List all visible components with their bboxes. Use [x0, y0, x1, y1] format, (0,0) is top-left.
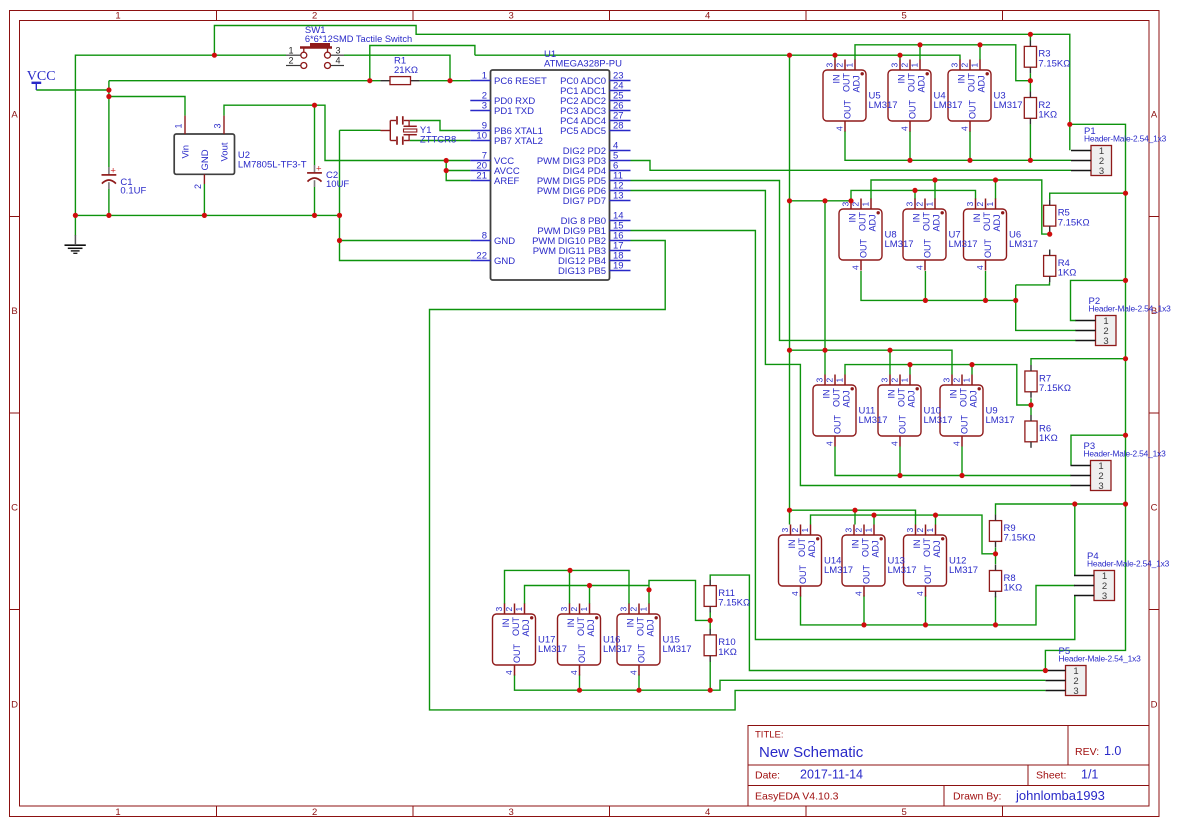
- regulator U4 (LM317): [888, 60, 963, 132]
- svg-text:OUT: OUT: [511, 617, 521, 637]
- svg-text:ADJ: ADJ: [842, 390, 852, 407]
- svg-text:2: 2: [835, 63, 845, 68]
- resistor R11: [704, 580, 750, 613]
- svg-text:OUT: OUT: [898, 415, 908, 435]
- svg-text:3: 3: [965, 202, 975, 207]
- svg-text:4: 4: [825, 441, 835, 446]
- svg-text:2017-11-14: 2017-11-14: [800, 768, 863, 782]
- svg-text:3: 3: [213, 123, 223, 128]
- wire group3 OUT rail to P3 pin2: [835, 447, 1071, 476]
- wire group4 IN rail: [790, 510, 916, 524]
- svg-text:1: 1: [115, 807, 120, 818]
- svg-text:OUT: OUT: [861, 538, 871, 558]
- svg-text:AREF: AREF: [494, 176, 520, 187]
- header P4: [1074, 551, 1170, 602]
- svg-text:LM317: LM317: [859, 415, 888, 426]
- svg-text:1: 1: [900, 378, 910, 383]
- resistor R4: [1044, 250, 1077, 283]
- svg-text:1KΩ: 1KΩ: [1039, 433, 1058, 444]
- svg-text:OUT: OUT: [797, 538, 807, 558]
- resistor R5: [1044, 199, 1090, 232]
- wire R4 bottom link: [1016, 282, 1050, 285]
- wire U6 pin1 tap: [995, 180, 997, 199]
- svg-text:Header-Male-2.54_1x3: Header-Male-2.54_1x3: [1059, 654, 1142, 664]
- wire R11 top to P5 pin1: [710, 575, 1045, 670]
- svg-text:1: 1: [910, 63, 920, 68]
- svg-text:LM317: LM317: [663, 644, 692, 655]
- svg-text:3: 3: [880, 378, 890, 383]
- wire U3 pin4 tap: [969, 131, 971, 160]
- svg-text:ADJ: ADJ: [807, 540, 817, 557]
- svg-text:1.0: 1.0: [1104, 744, 1121, 758]
- svg-text:22: 22: [476, 251, 487, 262]
- svg-text:D: D: [1151, 700, 1158, 711]
- regulator U6 (LM317): [964, 199, 1039, 271]
- regulator U3 (LM317): [948, 60, 1023, 132]
- wire group2 ADJ rail: [871, 180, 1050, 234]
- svg-text:2: 2: [960, 63, 970, 68]
- wire C1 bottom to ground rail: [108, 189, 110, 215]
- svg-text:OUT: OUT: [832, 388, 842, 408]
- svg-text:3: 3: [942, 378, 952, 383]
- header P3: [1071, 441, 1167, 492]
- regulator U16 (LM317): [558, 604, 633, 676]
- svg-text:IN: IN: [897, 75, 907, 84]
- svg-text:19: 19: [613, 261, 624, 272]
- wire U9 pin4 tap: [961, 447, 963, 476]
- wire U16 pin1 tap: [589, 586, 591, 605]
- svg-text:+: +: [110, 166, 116, 177]
- wire ADJ rail to R11-R10: [649, 580, 710, 620]
- wire SW1 pin1 to ground rail: [75, 55, 286, 215]
- svg-text:ADJ: ADJ: [852, 75, 862, 92]
- svg-text:LM317: LM317: [924, 415, 953, 426]
- svg-text:OUT: OUT: [636, 617, 646, 637]
- wire R8 bottom to OUT rail: [995, 596, 997, 625]
- svg-text:3: 3: [844, 528, 854, 533]
- svg-text:IN: IN: [848, 214, 858, 223]
- wire U1 pin12 to P3 pin3: [631, 191, 1072, 486]
- svg-text:OUT: OUT: [833, 415, 843, 435]
- svg-text:ADJ: ADJ: [871, 540, 881, 557]
- wire group2 IN feed: [790, 200, 852, 202]
- svg-text:+: +: [316, 164, 322, 175]
- wire U1 pin15 to P4 pin3: [631, 231, 1075, 640]
- svg-text:1KΩ: 1KΩ: [718, 647, 737, 658]
- wire U4 pin1 tap: [919, 45, 921, 60]
- svg-text:OUT: OUT: [923, 239, 933, 259]
- svg-text:21: 21: [476, 171, 487, 182]
- svg-text:7.15KΩ: 7.15KΩ: [718, 598, 750, 609]
- svg-text:LM317: LM317: [934, 100, 963, 111]
- wire group2 OUT rail: [861, 271, 1016, 300]
- wire VCC riser to LM317 IN rail: [370, 46, 475, 81]
- svg-text:1: 1: [970, 63, 980, 68]
- svg-text:GND: GND: [200, 149, 211, 170]
- wire U13 pin1 tap: [873, 515, 875, 524]
- wire U7 pin4 tap: [924, 271, 926, 300]
- wire C1 top vertical: [108, 81, 110, 167]
- regulator U13 (LM317): [842, 525, 917, 597]
- svg-text:1: 1: [845, 63, 855, 68]
- capacitor C1: [102, 166, 147, 197]
- wire U15 pin4 tap: [638, 675, 640, 691]
- wire group4 OUT rail to P4 pin2: [801, 586, 1075, 625]
- header P2: [1076, 296, 1172, 347]
- svg-text:OUT: OUT: [983, 239, 993, 259]
- svg-text:2: 2: [193, 184, 203, 189]
- svg-text:LM317: LM317: [994, 100, 1023, 111]
- svg-text:1: 1: [962, 378, 972, 383]
- wire U11 pin3 tap: [824, 350, 826, 374]
- wire U10 pin4 tap: [899, 447, 901, 476]
- wire SW1 pin3 to R1 right: [344, 55, 450, 80]
- svg-text:1KΩ: 1KΩ: [1004, 583, 1023, 594]
- svg-text:OUT: OUT: [798, 565, 808, 585]
- svg-text:2: 2: [790, 528, 800, 533]
- capacitor C2: [307, 164, 349, 190]
- svg-text:LM317: LM317: [949, 239, 978, 250]
- svg-text:A: A: [1151, 110, 1158, 121]
- wire R3 top tap: [1029, 34, 1031, 40]
- svg-text:ADJ: ADJ: [992, 214, 1002, 231]
- wire U2 GND pin to rail: [203, 184, 205, 215]
- svg-text:Drawn By:: Drawn By:: [953, 791, 1001, 803]
- svg-text:OUT: OUT: [858, 212, 868, 232]
- wire R9-R8 junction: [995, 548, 997, 565]
- wire U4 pin4 tap: [909, 131, 911, 160]
- wire group5 IN rail: [505, 570, 630, 604]
- regulator U7 (LM317): [903, 199, 978, 271]
- svg-text:PD1 TXD: PD1 TXD: [494, 106, 534, 117]
- svg-text:ADJ: ADJ: [917, 75, 927, 92]
- svg-text:C: C: [11, 503, 18, 514]
- wire R2 bottom to OUT rail: [1029, 124, 1031, 160]
- svg-text:4: 4: [335, 56, 340, 66]
- svg-text:2: 2: [288, 56, 293, 66]
- svg-text:LM317: LM317: [538, 644, 567, 655]
- svg-text:3: 3: [482, 101, 487, 112]
- regulator U11 (LM317): [813, 375, 888, 447]
- svg-text:4: 4: [854, 591, 864, 596]
- svg-text:OUT: OUT: [897, 388, 907, 408]
- svg-text:4: 4: [705, 11, 710, 22]
- wire U1 pin5 to P1 pin3: [631, 161, 1072, 171]
- svg-text:4: 4: [851, 265, 861, 270]
- svg-text:1: 1: [925, 528, 935, 533]
- wire R10 bottom: [709, 661, 711, 690]
- svg-text:OUT: OUT: [960, 415, 970, 435]
- resistor R8: [989, 565, 1022, 598]
- svg-text:4: 4: [915, 591, 925, 596]
- svg-text:2: 2: [504, 607, 514, 612]
- wire group2 IN rail: [851, 190, 976, 199]
- svg-text:IN: IN: [949, 390, 959, 399]
- svg-text:ADJ: ADJ: [586, 619, 596, 636]
- svg-text:B: B: [11, 306, 17, 317]
- svg-text:LM317: LM317: [603, 644, 632, 655]
- wire U1 pin16 to P5 pin3: [430, 241, 1046, 710]
- svg-text:3: 3: [1099, 166, 1104, 177]
- wire group4 ADJ rail: [811, 515, 996, 554]
- svg-text:OUT: OUT: [512, 644, 522, 664]
- wire U2 Vin branch: [109, 97, 185, 116]
- resistor R3: [1024, 40, 1070, 73]
- svg-text:3: 3: [559, 607, 569, 612]
- svg-text:LM317: LM317: [949, 565, 978, 576]
- svg-text:3: 3: [815, 378, 825, 383]
- regulator U12 (LM317): [904, 525, 979, 597]
- wire group5 OUT rail to P5 pin2: [515, 675, 1046, 691]
- svg-text:10UF: 10UF: [326, 179, 349, 190]
- wire ground rail: [75, 214, 339, 216]
- wire group1 OUT rail to P1 pin2: [845, 131, 1071, 160]
- svg-text:5: 5: [902, 11, 907, 22]
- wire VCC symbol to C1 node: [36, 89, 109, 91]
- microcontroller U1 (ATMEGA328P-PU): [470, 49, 630, 280]
- svg-text:6*6*12SMD Tactile Switch: 6*6*12SMD Tactile Switch: [305, 34, 412, 44]
- svg-text:Header-Male-2.54_1x3: Header-Male-2.54_1x3: [1084, 134, 1167, 144]
- svg-text:1: 1: [985, 202, 995, 207]
- svg-text:ADJ: ADJ: [646, 619, 656, 636]
- svg-text:7.15KΩ: 7.15KΩ: [1038, 58, 1070, 69]
- svg-text:3: 3: [905, 202, 915, 207]
- svg-text:4: 4: [790, 591, 800, 596]
- svg-text:IN: IN: [832, 75, 842, 84]
- svg-text:1: 1: [861, 202, 871, 207]
- svg-text:ADJ: ADJ: [969, 390, 979, 407]
- svg-text:OUT: OUT: [959, 388, 969, 408]
- resistor R10: [704, 629, 737, 662]
- crystal Y1: [381, 116, 457, 145]
- svg-text:3: 3: [494, 607, 504, 612]
- svg-text:3: 3: [335, 45, 340, 55]
- svg-text:LM317: LM317: [1009, 239, 1038, 250]
- header P5: [1046, 646, 1142, 697]
- wire U9 pin1 tap: [971, 365, 973, 375]
- svg-text:2: 2: [312, 807, 317, 818]
- regulator U15 (LM317): [617, 604, 692, 676]
- regulator U10 (LM317): [878, 375, 953, 447]
- svg-text:7.15KΩ: 7.15KΩ: [1039, 383, 1071, 394]
- svg-text:OUT: OUT: [967, 73, 977, 93]
- regulator U14 (LM317): [779, 525, 854, 597]
- wire U10 pin3 tap: [889, 350, 891, 374]
- svg-text:1/1: 1/1: [1081, 768, 1098, 782]
- ground symbol: [65, 235, 86, 253]
- svg-text:IN: IN: [887, 390, 897, 399]
- svg-text:3: 3: [1098, 481, 1103, 492]
- svg-text:IN: IN: [851, 540, 861, 549]
- wire branch to long right rail: [1045, 124, 1125, 670]
- svg-text:OUT: OUT: [842, 73, 852, 93]
- svg-text:LM317: LM317: [885, 239, 914, 250]
- svg-text:1: 1: [579, 607, 589, 612]
- svg-text:REV:: REV:: [1075, 746, 1099, 758]
- svg-text:2: 2: [975, 202, 985, 207]
- regulator U17 (LM317): [493, 604, 568, 676]
- svg-text:2: 2: [952, 378, 962, 383]
- svg-text:3: 3: [780, 528, 790, 533]
- svg-text:IN: IN: [957, 75, 967, 84]
- svg-text:3: 3: [509, 807, 514, 818]
- svg-text:1: 1: [835, 378, 845, 383]
- svg-text:2: 2: [915, 528, 925, 533]
- wire OUT rail up to R4: [1015, 285, 1017, 301]
- wire P2 pin1 link: [1071, 280, 1126, 320]
- svg-text:OUT: OUT: [859, 239, 869, 259]
- svg-text:ATMEGA328P-PU: ATMEGA328P-PU: [544, 59, 622, 70]
- wire U4 pin3 tap: [899, 55, 901, 60]
- svg-text:4: 4: [960, 126, 970, 131]
- svg-text:4: 4: [569, 670, 579, 675]
- svg-text:21KΩ: 21KΩ: [394, 65, 418, 76]
- svg-text:Date:: Date:: [755, 770, 780, 782]
- svg-text:OUT: OUT: [862, 565, 872, 585]
- svg-text:4: 4: [504, 670, 514, 675]
- regulator U8 (LM317): [839, 199, 914, 271]
- wire U6 pin4 tap: [985, 271, 987, 300]
- svg-text:LM7805L-TF3-T: LM7805L-TF3-T: [238, 160, 307, 171]
- resistor R6: [1025, 415, 1058, 448]
- resistor R1: [380, 56, 419, 85]
- svg-text:13: 13: [613, 191, 624, 202]
- wire U1 pin11 to P2 pin3: [631, 181, 1077, 341]
- svg-text:1: 1: [514, 607, 524, 612]
- svg-text:DIG7 PD7: DIG7 PD7: [563, 196, 606, 207]
- svg-text:ADJ: ADJ: [932, 214, 942, 231]
- svg-text:Vin: Vin: [180, 145, 191, 159]
- svg-text:2: 2: [629, 607, 639, 612]
- wire group3 IN rail: [790, 350, 953, 374]
- svg-text:Header-Male-2.54_1x3: Header-Male-2.54_1x3: [1084, 449, 1167, 459]
- svg-text:OUT: OUT: [576, 617, 586, 637]
- svg-text:LM317: LM317: [824, 565, 853, 576]
- svg-text:1: 1: [288, 45, 293, 55]
- svg-text:OUT: OUT: [908, 100, 918, 120]
- svg-text:A: A: [11, 110, 18, 121]
- wire U2 Vout to U1 pin7: [224, 105, 470, 160]
- svg-text:IN: IN: [501, 619, 511, 628]
- svg-text:johnlomba1993: johnlomba1993: [1015, 788, 1105, 803]
- wire C2 top: [314, 105, 316, 165]
- svg-text:D: D: [11, 700, 18, 711]
- svg-text:OUT: OUT: [968, 100, 978, 120]
- svg-text:28: 28: [613, 121, 624, 132]
- svg-text:3: 3: [825, 63, 835, 68]
- svg-text:4: 4: [835, 126, 845, 131]
- wire U12 pin1 tap: [935, 515, 937, 524]
- svg-text:DIG13 PB5: DIG13 PB5: [558, 266, 606, 277]
- wire P4 pin1 drop: [1074, 504, 1076, 576]
- svg-text:OUT: OUT: [907, 73, 917, 93]
- wire R7-R6 junction: [1030, 398, 1032, 415]
- wire OUT rail to P2 pin2: [1016, 300, 1076, 330]
- svg-text:PC6 RESET: PC6 RESET: [494, 76, 547, 87]
- wire C2 bottom: [314, 187, 316, 215]
- wire U13 pin3 tap: [854, 510, 856, 524]
- wire AREF tap: [446, 171, 470, 181]
- wire AVCC tap: [446, 161, 470, 171]
- svg-text:2: 2: [825, 378, 835, 383]
- svg-text:10: 10: [476, 131, 487, 142]
- svg-text:3: 3: [619, 607, 629, 612]
- header P1: [1071, 126, 1167, 177]
- wire group3 ADJ rail: [845, 365, 1031, 405]
- wire group5 ADJ rail: [525, 586, 650, 605]
- svg-text:ADJ: ADJ: [521, 619, 531, 636]
- svg-text:4: 4: [890, 441, 900, 446]
- wire crystal to pin10: [410, 140, 471, 142]
- svg-text:Vout: Vout: [219, 142, 230, 161]
- wire R3-R2 junction: [1029, 73, 1031, 91]
- regulator U5 (LM317): [823, 60, 898, 132]
- wire R1 right to U1 pin1: [420, 80, 471, 82]
- svg-text:3: 3: [1073, 686, 1078, 697]
- svg-text:2: 2: [915, 202, 925, 207]
- wire U1 pin8 gnd: [340, 240, 471, 242]
- svg-text:Header-Male-2.54_1x3: Header-Male-2.54_1x3: [1089, 304, 1172, 314]
- svg-text:ADJ: ADJ: [932, 540, 942, 557]
- wire junctions: [73, 32, 1128, 693]
- svg-text:3: 3: [890, 63, 900, 68]
- wire main IN vertical: [789, 55, 791, 524]
- wire P3 pin1 link: [1071, 435, 1126, 465]
- wire IN feed riser x825: [824, 201, 826, 350]
- title block: [748, 726, 1149, 807]
- svg-text:1: 1: [174, 123, 184, 128]
- wire U5 pin3 tap: [834, 55, 836, 60]
- svg-text:0.1UF: 0.1UF: [120, 186, 146, 197]
- svg-text:TITLE:: TITLE:: [755, 730, 784, 741]
- svg-text:1: 1: [482, 71, 487, 82]
- svg-text:EasyEDA V4.10.3: EasyEDA V4.10.3: [755, 791, 839, 803]
- wire U7 pin3 tap: [914, 190, 916, 199]
- svg-text:PC5 ADC5: PC5 ADC5: [560, 126, 606, 137]
- svg-text:3: 3: [950, 63, 960, 68]
- svg-text:ZTTCR8: ZTTCR8: [420, 135, 456, 146]
- svg-text:IN: IN: [566, 619, 576, 628]
- svg-text:New Schematic: New Schematic: [759, 744, 864, 761]
- svg-text:1KΩ: 1KΩ: [1038, 110, 1057, 121]
- svg-text:Header-Male-2.54_1x3: Header-Male-2.54_1x3: [1087, 559, 1170, 569]
- resistor R7: [1025, 365, 1071, 398]
- wire LM317 IN feed rail (top): [475, 55, 960, 60]
- svg-text:LM317: LM317: [888, 565, 917, 576]
- svg-text:2: 2: [569, 607, 579, 612]
- svg-text:1: 1: [639, 607, 649, 612]
- net flag VCC: [27, 69, 56, 90]
- svg-text:OUT: OUT: [982, 212, 992, 232]
- svg-text:8: 8: [482, 231, 487, 242]
- svg-text:1: 1: [925, 202, 935, 207]
- svg-text:5: 5: [902, 807, 907, 818]
- svg-text:IN: IN: [787, 540, 797, 549]
- svg-text:4: 4: [952, 441, 962, 446]
- svg-text:3: 3: [1102, 591, 1107, 602]
- wire ground stub: [74, 215, 76, 235]
- wire U15 pin1 tap: [648, 586, 650, 605]
- wire top net to R3 and P1: [214, 26, 1069, 151]
- svg-text:7.15KΩ: 7.15KΩ: [1004, 533, 1036, 544]
- svg-text:OUT: OUT: [922, 538, 932, 558]
- wire group1 ADJ rail: [855, 45, 1030, 81]
- svg-text:IN: IN: [822, 390, 832, 399]
- svg-text:IN: IN: [626, 619, 636, 628]
- svg-text:ADJ: ADJ: [868, 214, 878, 231]
- wire U10 pin1 tap: [909, 365, 911, 375]
- wire crystal left lead: [340, 129, 381, 131]
